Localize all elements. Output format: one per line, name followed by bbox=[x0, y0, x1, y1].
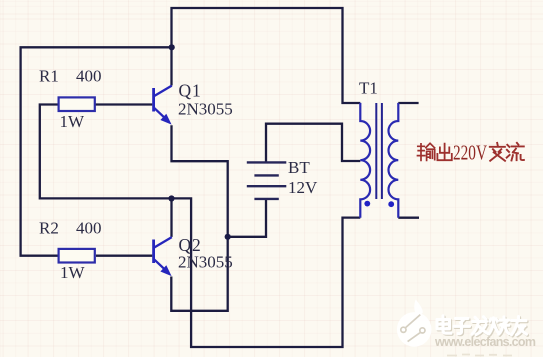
svg-text:12V: 12V bbox=[288, 178, 318, 197]
svg-text:R2: R2 bbox=[39, 218, 59, 237]
resistor R1 body bbox=[59, 97, 95, 111]
transistor Q2 bbox=[152, 237, 172, 276]
output label CJK liu (流) bbox=[507, 143, 524, 161]
svg-text:1W: 1W bbox=[60, 263, 86, 282]
svg-text:400: 400 bbox=[76, 67, 102, 86]
wire feedback from Q1 collector node down to R2 left lead bbox=[21, 47, 172, 255]
wire R2 to Q2 base bbox=[96, 255, 152, 257]
svg-text:Q1: Q1 bbox=[179, 81, 202, 101]
watermark next row faint tops bbox=[447, 355, 512, 356]
wire secondary output bottom lead bbox=[398, 217, 419, 219]
transformer polarity dot primary bbox=[364, 201, 370, 207]
transformer T1 primary winding bbox=[360, 103, 370, 218]
output label CJK jiao (交) bbox=[490, 143, 505, 161]
svg-text:BT: BT bbox=[288, 158, 310, 177]
wire Q1 emitter to common emitter node to Q2 emitter bbox=[171, 125, 227, 310]
watermark logo circle bbox=[397, 299, 432, 346]
wire top rail: Q1 collector to transformer primary top bbox=[172, 8, 361, 103]
node C junction dot emitters/battery negative bbox=[225, 234, 231, 240]
output label CJK chu (出) bbox=[437, 144, 451, 161]
wire secondary output top lead bbox=[398, 102, 418, 104]
svg-text:2N3055: 2N3055 bbox=[178, 253, 233, 272]
wire R1 to Q1 base bbox=[95, 103, 152, 105]
node A junction dot Q1 collector/feedback bbox=[169, 44, 175, 50]
wire Q2 collector up to node B bbox=[170, 199, 172, 237]
transformer T1 secondary winding bbox=[389, 103, 399, 218]
battery BT plates bbox=[247, 162, 286, 199]
resistor R2 body bbox=[59, 249, 95, 263]
svg-text:1W: 1W bbox=[60, 112, 86, 131]
node B junction dot Q2 collector/R1 feedback bbox=[168, 195, 174, 201]
svg-text:2N3055: 2N3055 bbox=[178, 100, 233, 119]
wire battery positive to transformer center tap bbox=[266, 124, 360, 162]
wire R1 left lead down right to Q2 collector node then to transformer primary bottom bbox=[40, 105, 361, 348]
wire battery negative to emitter node bbox=[228, 200, 266, 237]
svg-text:T1: T1 bbox=[359, 79, 378, 98]
transformer T1 core bbox=[376, 103, 382, 199]
watermark text dian zi fa shao you (电子发烧友) bbox=[437, 316, 528, 336]
output label CJK shu (输) bbox=[418, 143, 435, 160]
svg-text:R1: R1 bbox=[39, 67, 59, 86]
transformer polarity dot secondary bbox=[388, 201, 394, 207]
svg-text:www.elecfans.com: www.elecfans.com bbox=[434, 335, 536, 349]
svg-text:220V: 220V bbox=[453, 141, 487, 165]
svg-text:400: 400 bbox=[76, 218, 102, 237]
transistor Q1 bbox=[152, 86, 172, 125]
